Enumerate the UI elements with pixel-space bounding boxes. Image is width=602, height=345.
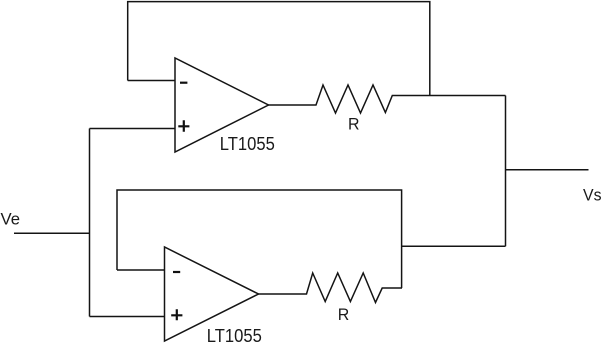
svg-text:Ve: Ve bbox=[1, 210, 21, 229]
svg-text:Vs: Vs bbox=[583, 187, 602, 205]
svg-text:R: R bbox=[338, 305, 350, 324]
svg-text:LT1055: LT1055 bbox=[207, 325, 262, 345]
svg-text:R: R bbox=[348, 116, 360, 134]
svg-text:LT1055: LT1055 bbox=[220, 134, 275, 154]
